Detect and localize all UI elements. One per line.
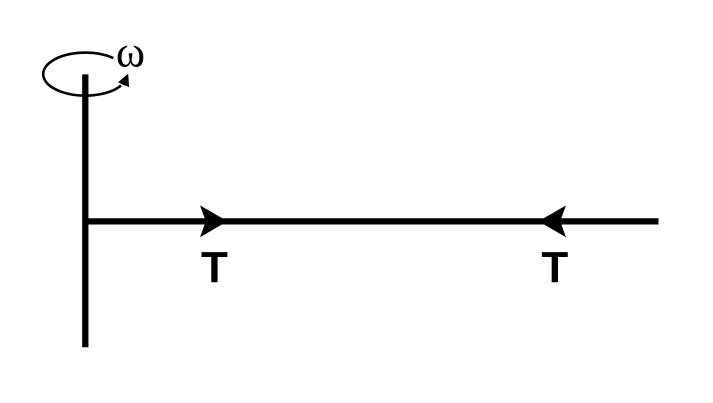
rod (horizontal line) xyxy=(85,218,658,224)
right torque arrowhead xyxy=(539,205,567,237)
rotation arc (angular velocity ellipse) xyxy=(43,53,121,96)
svg-text:T: T xyxy=(201,243,228,292)
svg-text:T: T xyxy=(541,243,568,292)
svg-text:ω: ω xyxy=(116,28,145,77)
rotation arrowhead xyxy=(118,74,129,88)
left torque arrowhead xyxy=(200,205,228,237)
shaft (vertical axis line) xyxy=(82,74,88,347)
